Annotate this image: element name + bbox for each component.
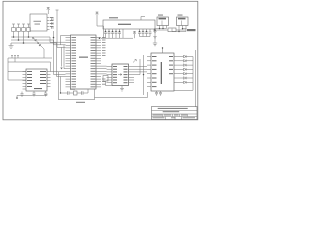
key S2 (17, 24, 20, 40)
RP1 right pins down (140, 29, 151, 32)
wire from arrow to U1 pin40 (97, 26, 104, 38)
U2 right wires (134, 59, 147, 75)
MCU U1 box (71, 35, 97, 89)
connector J2 box (177, 17, 189, 26)
U1 pin name text (72, 37, 96, 87)
wire loop to U1 top (61, 36, 71, 45)
U4 top wire (162, 48, 164, 53)
U4 right pin stubs (174, 57, 178, 83)
arrow near U2 top right (133, 59, 136, 62)
VCC arrow right of bus (133, 32, 136, 39)
RP1 resistor pack box (103, 20, 155, 29)
regulator U5 box (30, 14, 47, 31)
key S1 (12, 24, 15, 37)
crystal loop outer (59, 72, 95, 100)
right edge bus (195, 50, 197, 107)
long vline right of U2 (143, 55, 145, 95)
title text (153, 108, 196, 118)
gnd at J1 (153, 29, 159, 32)
ULN U4 box (151, 53, 174, 91)
hwire y62 (8, 61, 51, 63)
U2 center arrow (118, 74, 122, 76)
caps under RP1 left (104, 32, 121, 38)
MAX232 U3 box (26, 69, 47, 91)
U2 right pin stubs (129, 67, 135, 83)
J2 pins (172, 26, 187, 32)
wire to R box (155, 29, 168, 31)
serial loop wire (17, 94, 47, 99)
connector J1 box (157, 17, 169, 26)
corner flag above RP1 (141, 17, 145, 21)
VCC arrow above U5 (47, 8, 50, 15)
vertical bus v1 (50, 37, 66, 42)
reset circuit wires (62, 45, 66, 69)
U4 left pin stubs (147, 57, 151, 87)
jumper stubs left middle (11, 56, 19, 63)
LED column D3-D9 (178, 55, 193, 83)
U3 pin stubs right (47, 72, 51, 87)
caps under U4 (155, 91, 162, 96)
U2 left pin stubs (107, 67, 113, 83)
vertical wire right of U5 (56, 10, 59, 44)
U5 pin labels (50, 17, 54, 27)
caps under RP1 right (138, 32, 152, 37)
U5 internal text (34, 21, 42, 25)
RP1 left pins down (106, 29, 124, 38)
U3 internal text (27, 71, 46, 89)
bus under caps (101, 37, 133, 39)
resistor R box (168, 28, 176, 32)
key S3 (22, 24, 25, 43)
diode D1 diagonal (33, 38, 38, 43)
key S4 (27, 24, 30, 37)
hwire y58 (8, 57, 52, 59)
U2 internal text (113, 66, 128, 83)
wires U3 to U1 (51, 40, 66, 77)
ground GND1 (9, 43, 14, 49)
crystal labels (70, 89, 85, 103)
caps under U3 (21, 92, 24, 98)
junction dots (13, 28, 184, 99)
left vertical wire (8, 58, 26, 80)
VCC arrow mid top (96, 12, 99, 26)
diode chain right of RP1 (154, 29, 157, 43)
U1 to U2 wires (101, 66, 107, 74)
crystal circuit (61, 77, 68, 94)
J1 pins (160, 26, 167, 29)
vertical bus v2 (54, 31, 66, 45)
diode D2 diagonal (38, 43, 45, 59)
U5 pin stubs right (47, 18, 50, 30)
ADC U2 box (112, 64, 129, 86)
LED collector line (174, 57, 193, 91)
decoupling caps beside U5 (52, 18, 54, 29)
pot R box lower-left of U2 (103, 76, 108, 82)
bus wires left (11, 37, 57, 43)
RP1 text (109, 17, 131, 25)
U1 left pin stubs (66, 38, 71, 87)
ground under chain (153, 43, 157, 46)
long bottom wire (95, 92, 148, 98)
U2 ground (120, 86, 124, 92)
vertical bus v3 (57, 44, 66, 47)
U3 pin stubs left (23, 72, 27, 90)
U1 right pin stubs (96, 38, 101, 87)
U1 right pin labels outside (102, 37, 106, 85)
title block box (152, 107, 198, 120)
border frame (3, 1, 198, 120)
U4 internal text (152, 56, 173, 87)
net label box (187, 29, 196, 31)
